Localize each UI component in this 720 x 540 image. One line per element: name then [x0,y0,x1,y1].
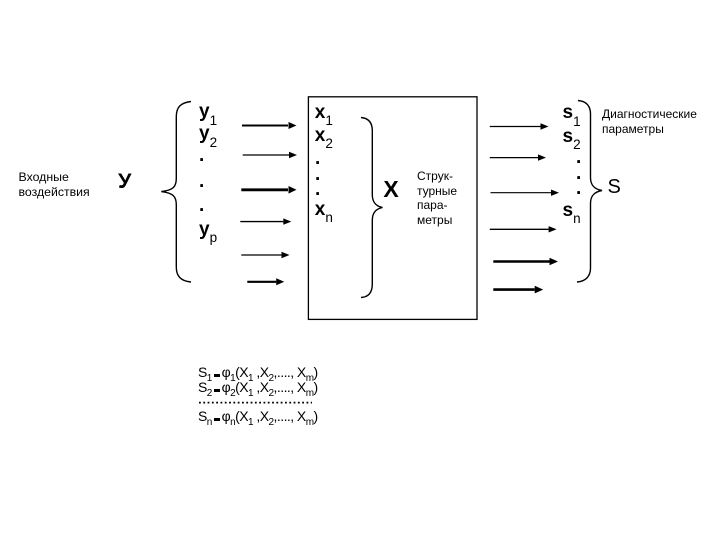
node s2 [563,127,581,146]
arrow box to s3 [491,190,560,196]
node yp [199,220,217,239]
arrow box to s4 [490,226,557,232]
text: Структурные параметры [417,169,457,227]
node xn [315,200,333,219]
brace: left of y list [161,102,191,283]
node x1 [315,103,333,122]
dots of y list [199,146,204,165]
arrow box to sn [493,286,543,294]
text: Диагностические параметры [602,107,697,138]
brace: right of x list [361,118,383,298]
node x2 [315,126,333,145]
arrow box to s5 [493,258,558,266]
arrow 5 to box [241,252,289,258]
arrow yp to box [247,278,284,285]
node y1 [199,102,217,121]
label У (input vector) [118,171,131,193]
arrow 3 to box [241,186,296,194]
arrow y2 to box [243,152,297,158]
formula Sn = phin(X1, X2, ..., Xm) [198,409,318,423]
formula S2 = phi2(X1, X2, ..., Xm) [198,380,318,394]
arrow box to s1 [490,123,549,129]
node y2 [199,124,217,143]
arrow box to s2 [490,154,546,160]
arrow 4 to box [240,218,291,224]
label X (state vector) [383,178,398,201]
dots of s list [576,148,581,167]
text: Входные воздействия [19,170,90,199]
brace: right of s list [577,101,602,283]
node s1 [563,103,581,122]
dotted separator in formulas [199,402,312,404]
block: object box [308,97,477,320]
label S (diagnostic vector) [608,177,621,197]
arrow y1 to box [242,122,297,129]
dots of x list [315,149,320,168]
node sn [563,201,581,220]
formula S1 = phi1(X1, X2, ..., Xm) [198,365,318,379]
